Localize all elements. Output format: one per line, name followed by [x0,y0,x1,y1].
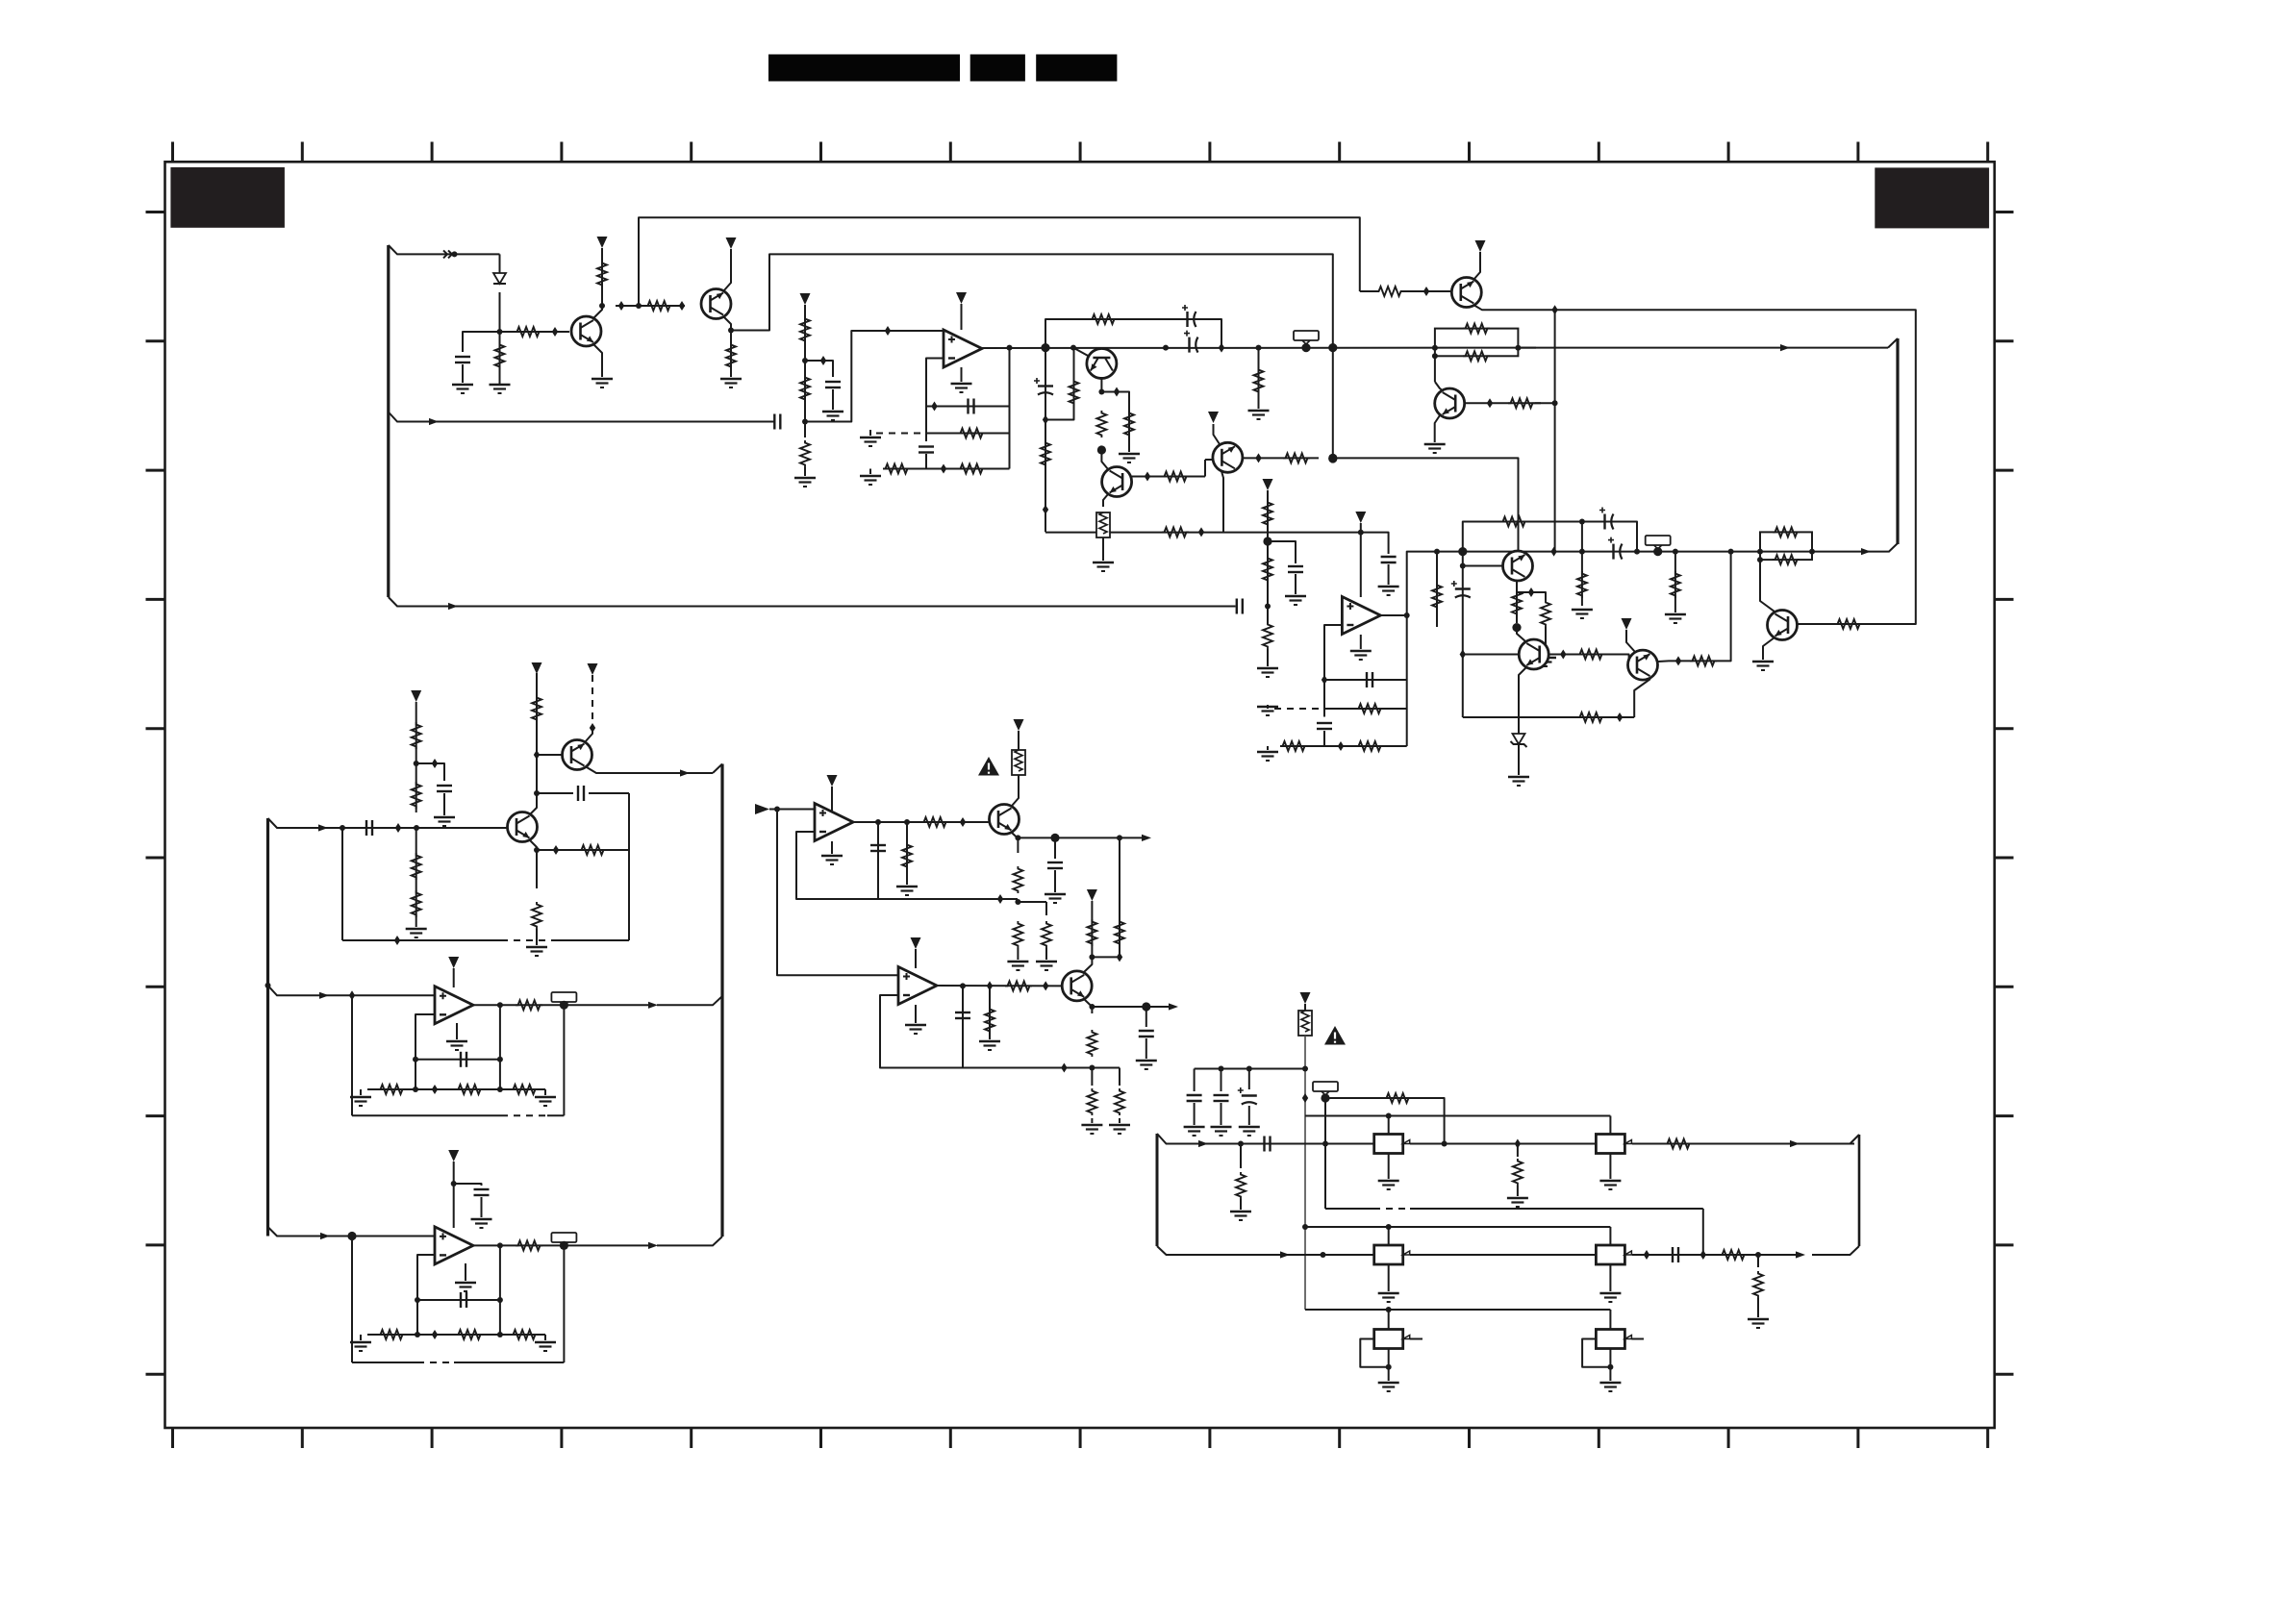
junction dot [1579,549,1585,555]
wire stage2 fb row [1463,716,1634,718]
wire op4 gnd [465,1263,466,1281]
ground [1752,662,1774,670]
wire op4 minus [417,1255,435,1335]
resistor hang [1432,583,1442,610]
safety resistor [1096,512,1110,537]
wire [1517,1186,1519,1196]
ground [860,437,881,446]
ground [979,1041,1000,1050]
junction dot [599,303,605,309]
power arrow [956,292,967,304]
diamond [679,301,685,311]
warning triangle [1324,1026,1346,1045]
wire op1 supply [961,304,963,330]
junction dot [1515,345,1521,351]
resistor loop [1500,517,1527,527]
ground [1136,1061,1157,1069]
wire bus A2 vertical [266,818,269,1237]
wire T12 out riser [1720,552,1731,662]
capacitor fb vert [919,447,934,453]
input arrow [755,804,769,814]
wire [589,792,629,794]
junction big dot [1097,445,1106,454]
ground [1378,1181,1399,1189]
capacitor fb [969,399,974,414]
wire out cap leg [962,986,964,1067]
arrow [680,769,690,776]
ground [1109,1125,1130,1134]
wire bevel into bus [713,764,722,774]
wire T3 collector [530,673,537,814]
ground [1257,752,1278,761]
junction big dot [1653,547,1662,556]
wire jog [1045,412,1074,420]
wire div cap branch [1268,541,1296,563]
junction dot [1386,1364,1392,1370]
junction dot [1322,1141,1328,1147]
arrow [319,992,329,999]
ground [1599,1181,1621,1189]
wire box left leg [351,995,353,1115]
ground [446,1041,467,1050]
resistor [1577,712,1604,722]
junction dot [451,1181,457,1187]
boxed resistor [1298,1011,1312,1036]
junction dot [1634,549,1640,555]
resistor [1042,921,1051,948]
arrow [648,1242,658,1249]
wire bus A exit 2 [389,412,775,422]
ground [1211,1127,1232,1136]
ground [1239,1127,1260,1136]
diamond [931,402,937,412]
wire T9 base lead [1205,459,1213,461]
transistor T10 [1503,551,1533,581]
wire box bottom [352,1362,417,1363]
junction dot [728,328,734,334]
wire T5 collector [1473,305,1554,310]
resistor [985,1007,994,1034]
wire bus A2 exit 1 [268,818,508,828]
junction big dot [1512,623,1521,632]
wire base R Q1 [500,331,570,333]
wire op5 out [937,985,1061,987]
wire mid corner [1702,1209,1704,1255]
capacitor loop top [1182,305,1196,327]
junction dot [414,761,419,766]
transistor T5 [1451,278,1481,308]
resistor [1720,1250,1747,1260]
junction dot [1358,530,1364,536]
power arrow [1263,479,1273,490]
ground [1599,1383,1621,1391]
junction dot [1432,353,1438,359]
wire op3 minus [415,1014,435,1089]
wire dashed mid [1373,1208,1410,1210]
transistor T13 [990,805,1020,835]
wire T4 base [537,754,562,756]
diamond [941,464,946,474]
junction dot [1442,1141,1448,1147]
wire rect4 gnd [1609,1264,1611,1291]
arrow [320,1233,330,1239]
wire stage1 left leg [1045,348,1046,533]
ground [1184,1127,1205,1136]
diode D1 [493,273,506,284]
ground [1572,610,1593,618]
transistor T12 [1628,650,1658,680]
wire [1018,731,1020,750]
connector tag [1294,331,1319,344]
wire rect1 top leg [1388,1116,1390,1136]
wire [1518,745,1520,775]
wire T5 base [1403,290,1451,292]
wire branch [1517,592,1546,600]
diamond [553,845,559,855]
ground [434,817,455,826]
wire out cap leg [877,822,879,899]
parallel pair stage1 [1435,329,1519,357]
op-amp U6 [815,804,853,841]
wire [1388,564,1390,585]
ground [1378,587,1399,595]
capacitor [1288,566,1303,572]
wire op6 supply [831,787,833,811]
capacitor fb vert [1317,723,1332,729]
wire T14 emitter [1084,999,1092,1013]
wire op2 out riser [1407,552,1814,615]
wire T8 emitter drop [1103,494,1108,507]
wire bevel [1850,1135,1860,1144]
resistor [1087,1088,1096,1115]
wire [925,454,927,469]
ground [1350,651,1372,660]
ground [1045,894,1066,903]
junction dot [452,251,458,257]
diamond [1114,387,1120,397]
ground [1036,962,1057,970]
ground [471,1219,492,1228]
wire op1 plus input [805,331,944,422]
wire dashed supply [592,675,593,728]
wire T8 collector [1101,450,1108,469]
wire jog [1018,901,1046,903]
wire op2 gnd [1360,635,1362,649]
wire [1045,902,1047,915]
wire bus A exit 3 [389,597,1236,607]
wire cap leg 2 [1221,1069,1222,1092]
junction dot [1070,345,1076,351]
wire pair left leg down [1434,356,1436,382]
ground [1081,1125,1102,1134]
resistor [1263,556,1272,583]
polarized cap rail [1451,581,1471,598]
wire op3 gnd [456,1023,458,1039]
junction dot [1434,549,1440,555]
ground [1257,668,1278,677]
junction dot [1321,1252,1326,1258]
diamond [1043,505,1048,514]
wire [1323,731,1325,746]
polarized cap on line [1184,331,1198,353]
resistor [1384,1093,1411,1103]
wire [1194,1103,1196,1125]
ground [1535,658,1556,666]
wire op1 minus lead [926,359,944,442]
wire out leg [499,1005,501,1089]
junction dot [1673,549,1678,555]
junction dot [1015,835,1020,840]
resistor R base Q1 [515,327,541,337]
resistor [1577,650,1604,660]
title bar redaction 3 [1036,55,1117,82]
junction dot [1386,1113,1392,1119]
junction dot [414,825,419,831]
wire R gnd [989,986,991,1039]
diamond [1302,1093,1308,1103]
arrow on wire C [1861,548,1871,555]
wire C from pair [1812,551,1814,553]
wire fb lower row [1280,745,1407,747]
arrow on wire B [1780,344,1790,351]
junction dot [1302,1224,1308,1230]
wire op4 out [473,1244,650,1246]
connector tag [1646,536,1671,549]
arrow out [1169,1003,1178,1010]
wire feed row1 [1305,1115,1610,1117]
capacitor [1673,1247,1678,1262]
ground [1007,962,1028,970]
power arrow [1087,889,1097,901]
capacitor [955,1012,970,1018]
wire gnd stub [869,430,871,436]
junction dot [497,1297,503,1303]
wire rect6 gnd [1609,1349,1611,1382]
wire rect3 top leg [1388,1227,1390,1245]
diamond [1338,741,1344,751]
diamond [1487,398,1493,408]
transistor T7 [1087,349,1117,379]
diamond [960,817,966,827]
arrow [1796,1251,1805,1258]
resistor [1577,571,1587,598]
wire [1304,1004,1306,1011]
junction dot [960,983,966,988]
wire [1091,1068,1093,1087]
junction dot [1098,389,1104,395]
wire stage2 rail [1462,552,1464,717]
junction dot [1219,1066,1224,1072]
title bar redaction 2 [970,55,1025,82]
wire Q1 collector [593,306,602,318]
wire rect3 gnd [1388,1264,1390,1291]
wire fb right leg [1406,615,1408,746]
wire Q2 collector [723,316,731,331]
wire T7 collector [1100,348,1102,349]
power arrow [911,937,921,949]
resistor [1115,919,1124,946]
wire hang R below C [1436,552,1438,627]
filter component F2 [1596,1135,1631,1154]
wire loop entry top [1766,1143,1854,1145]
wire gnd stub [1267,705,1269,709]
wire cap leg 1 [1194,1069,1196,1092]
ground [452,385,473,393]
junction dot [265,983,271,988]
resistor [412,782,421,809]
resistor [1115,1088,1124,1115]
ground [821,856,843,864]
resistor fb mid [1356,704,1383,713]
wire fb mid row [1324,708,1407,710]
wire [1240,1199,1242,1210]
power arrow [1300,992,1311,1004]
junction dot [497,329,503,335]
connector tag [551,1233,576,1246]
junction big dot [1328,454,1337,462]
wire fb branch [537,849,629,851]
resistor pair top [1463,324,1490,334]
zener diode [1511,734,1527,747]
wire collector node [1092,956,1120,958]
wire T14 collector [1084,957,1092,972]
capacitor coupling [1237,599,1243,614]
resistor base [1005,981,1032,990]
resistor [1671,571,1680,598]
wire op6 plus [769,809,815,811]
junction big dot [1041,343,1049,352]
wire top feedback loop [639,217,1360,306]
junction dot [1256,345,1262,351]
junction dot [1265,604,1271,610]
resistor [1162,472,1189,482]
wire op5 supply [915,949,917,968]
wire [1221,1103,1222,1125]
wire bus A2 exit 3 [268,1227,436,1237]
wire T5 collector drop [1554,310,1556,551]
wire block loop right [1858,1135,1861,1246]
junction dot [340,825,345,831]
transistor Q2 [701,289,731,319]
wire Q2 collector riser [731,254,1333,459]
wire gnd stub [360,1089,362,1095]
diamond [534,750,540,760]
wire [1054,870,1056,892]
resistor T3 collector [532,695,541,722]
wire supply cap branch [1361,533,1389,554]
resistor emitter [1087,1030,1096,1057]
arrow out [1142,835,1151,841]
junction dot [497,1087,503,1092]
capacitor input [366,820,372,836]
wire rect5 loop [1360,1339,1388,1367]
ground [455,1283,476,1291]
junction dot [1328,454,1337,462]
transistor T11 [1519,639,1548,669]
ground [350,1342,371,1351]
resistor [726,342,736,369]
capacitor [455,357,470,362]
wire T10 base [1463,565,1502,567]
diamond [1551,305,1557,314]
wire mid solid a [1325,1208,1373,1210]
junction dot [1163,345,1169,351]
wire box left leg [351,1237,353,1363]
resistor T3 emitter [532,902,541,929]
arrow [1790,1140,1800,1147]
wire [536,929,538,945]
transistor T8 [1102,467,1132,497]
junction dot [415,1297,420,1303]
op-amp U5 [898,967,937,1005]
wire gnd stub [544,1089,546,1095]
ground [592,379,613,387]
wire [443,793,445,815]
ground [490,385,511,393]
polarized cap loop [1599,508,1614,530]
filter component F5 [1374,1330,1410,1349]
frame border [165,162,1995,1428]
junction dot [1552,400,1558,406]
wire T6 emitter [1763,637,1775,660]
junction dot [636,303,642,309]
junction big dot [560,1241,568,1250]
arrow on wire [429,418,439,425]
ground [860,476,881,485]
wire T8 base run [1132,476,1205,478]
power arrow [1014,719,1024,731]
resistor [1541,600,1550,627]
diamond [1617,712,1623,722]
polarized cap [1034,378,1053,395]
junction dot [1007,345,1013,351]
power arrow [827,775,838,787]
wire corner to T12 base [1622,655,1629,665]
resistor out [516,1240,542,1250]
wire emitter right branch [1101,392,1129,453]
diamond [432,759,438,768]
wire op1 output [982,347,1536,349]
wire rect2 gnd [1609,1154,1611,1180]
wire [1545,627,1547,656]
resistor [1665,1139,1692,1149]
diamond [1198,527,1204,537]
junction dot [1579,519,1585,525]
ground [350,1097,371,1106]
resistor fb R [511,1330,538,1339]
resistor [800,316,810,343]
wire base corner [1204,460,1206,477]
wire below node [415,828,417,927]
wire out run [1018,837,1145,838]
junction dot [1386,1307,1392,1312]
arrow [1198,1140,1208,1147]
wire cluster bottom dashed [501,939,555,941]
capacitor input [1265,1137,1271,1152]
wire T5 emitter [1473,252,1480,280]
wire R under dot [1073,348,1075,412]
ground [720,379,742,387]
wire fuse drop [1304,1036,1306,1310]
wire [1102,537,1104,561]
diamond [1528,587,1534,597]
wire cluster left leg [341,828,343,940]
wire [462,364,464,383]
resistor [800,440,810,467]
capacitor fb [461,1052,466,1067]
resistor fb R [511,1085,538,1094]
diamond [820,356,826,365]
